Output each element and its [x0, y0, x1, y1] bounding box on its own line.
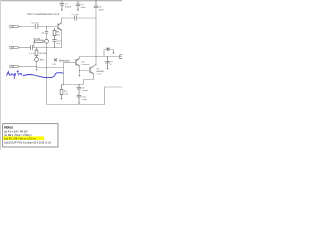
svg-text:2N3904: 2N3904 — [82, 64, 90, 66]
ground arrow (under R7) — [61, 98, 63, 100]
wire: node A vertical continues to bottom rail — [46, 48, 48, 105]
svg-text:C1 10u: C1 10u — [32, 23, 40, 25]
jack J3 (lower) — [10, 65, 22, 68]
wire: RV1 down through J3 node — [36, 61, 38, 68]
jack J2 (middle) — [10, 46, 22, 49]
svg-text:Notes: Notes — [4, 126, 13, 130]
svg-text:100uF: 100uF — [65, 6, 72, 8]
wire: emitter RC rail y84.5 — [62, 84, 84, 86]
svg-text:(cc) 95 1 9E / 60s xx 12.5 mv: (cc) 95 1 9E / 60s xx 12.5 mv — [4, 138, 36, 141]
page top border — [0, 0, 122, 1]
resistor R2 (horizontal, to Q5 base) — [35, 40, 44, 42]
capacitor C5 (series on J2 wire) — [31, 45, 33, 50]
capacitor C7 (top decoupling, left) — [60, 1, 64, 10]
notes highlight yellow — [3, 136, 44, 140]
svg-text:100n: 100n — [81, 7, 87, 9]
blue annotation Amp In — [7, 71, 22, 79]
wire: Q2 emitter down + to Q3 base — [80, 66, 91, 70]
wire: long vertical x96 down to rail — [95, 8, 97, 66]
svg-text:100uF: 100uF — [82, 90, 89, 92]
wire: mid rail y47.5 — [33, 47, 63, 49]
capacitor C9 (top, on long vertical) — [94, 0, 98, 8]
ground arrow (under C10) — [78, 103, 80, 105]
capacitor C11 (x107 from top rail) — [105, 57, 109, 68]
wire: low rail y67.5 — [37, 67, 64, 69]
capacitor C1 (series, input) — [35, 24, 38, 29]
notes box — [3, 124, 58, 147]
svg-text:R5 10k: R5 10k — [40, 53, 48, 55]
jack J1 (input, top) — [10, 25, 22, 28]
resistor R5 (x36.5 vertical) — [35, 48, 38, 58]
capacitor C6 (electrolytic, x79) — [77, 85, 81, 96]
ground arrow (under C11) — [107, 68, 109, 70]
wire: bottom rail — [47, 87, 123, 105]
svg-text:2N3904: 2N3904 — [96, 71, 104, 73]
svg-text:R2 1M: R2 1M — [34, 38, 41, 40]
capacitor C2 (series on collector wire) — [75, 16, 77, 21]
wire: Q1 collector up to y18 — [62, 18, 97, 23]
resistor R7 (x61.5 to ground) — [60, 85, 63, 98]
svg-text:C2 10u: C2 10u — [72, 14, 80, 16]
svg-text:C5 1u: C5 1u — [29, 53, 36, 55]
wire: node A vertical down — [46, 27, 48, 40]
ground arrow (under C8) — [77, 10, 79, 12]
capacitor C8 (top decoupling, middle) — [76, 1, 80, 10]
capacitor C3 (on node A vertical) — [45, 32, 48, 33]
resistor R3 / cap chain (x54.5 bias) — [52, 28, 56, 48]
blue annotation wavy wire — [23, 73, 64, 78]
svg-text:Detection: Detection — [59, 58, 71, 62]
svg-text:SW1: SW1 — [106, 48, 112, 50]
mark X (not fitted) — [54, 58, 57, 61]
ground arrow (under C7) — [61, 10, 63, 12]
wire: Q1 emitter down to rail — [61, 30, 63, 47]
ground arrow (under Q2 emitter) — [79, 75, 81, 77]
transistor Q2 — [76, 58, 80, 66]
svg-text:10uF: 10uF — [82, 99, 88, 101]
svg-text:Purr Load Detector v1.2: Purr Load Detector v1.2 — [28, 12, 60, 16]
wire: Q2 collector to top rail y56.5 — [80, 57, 123, 59]
wire: Q3 emitter down, left, to cap node — [84, 74, 94, 85]
svg-text:(dd) ECU/F P( M 9.a.ampr 29.4.: (dd) ECU/F P( M 9.a.ampr 29.4.2019 v1.2a — [4, 141, 51, 144]
wire: J2 to rail — [22, 47, 31, 49]
wire: Q3 collector up to x96 vertical — [94, 64, 97, 66]
svg-text:10uF: 10uF — [99, 9, 105, 11]
connector stub at right edge — [120, 55, 124, 59]
transistor Q3 — [90, 66, 94, 74]
capacitor C10 (second, x79) — [77, 95, 81, 102]
wire: J1 to Q1 base — [22, 26, 58, 28]
wire: J3 to RV1 node — [22, 66, 37, 68]
wire: Q2 base from x63.5 vertical — [64, 62, 77, 64]
node A junction — [45, 25, 48, 28]
transistor Q5 (circle style) — [45, 39, 49, 43]
page left border — [0, 0, 1, 150]
trimmer RV1 (circle) — [35, 58, 39, 62]
ground arrow (under RV1) — [36, 69, 38, 71]
switch stub SW1 — [104, 50, 114, 57]
wire: R2 left end to rail — [33, 41, 36, 47]
transistor Q1 — [58, 23, 62, 31]
